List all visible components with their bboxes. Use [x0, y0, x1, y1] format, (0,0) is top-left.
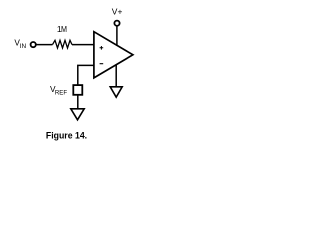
- wire resistor to op-amp noninverting input: [72, 44, 94, 46]
- terminal VREF box: [73, 85, 82, 95]
- wire terminal to resistor: [36, 44, 52, 46]
- wire inverting input: [78, 65, 94, 84]
- svg-text:V+: V+: [112, 6, 123, 16]
- wire op-amp bottom to ground: [115, 65, 117, 87]
- terminal V+: [114, 21, 119, 26]
- wire VREF box to ground: [77, 95, 79, 109]
- wire V+ to op-amp top: [116, 26, 118, 46]
- terminal VIN: [31, 42, 36, 47]
- svg-text:IN: IN: [20, 43, 27, 50]
- ground below VREF: [71, 109, 84, 120]
- svg-text:Figure 14.: Figure 14.: [46, 130, 87, 141]
- resistor 1M: [53, 40, 73, 48]
- svg-text:REF: REF: [55, 90, 67, 97]
- node VIN label: [14, 37, 26, 50]
- node VREF label: [50, 84, 67, 97]
- ground below op-amp: [110, 87, 122, 97]
- svg-text:M: M: [61, 24, 67, 34]
- op-amp U1: [94, 32, 133, 78]
